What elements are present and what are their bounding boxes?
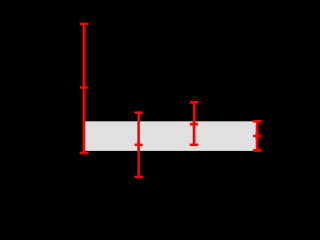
error bar 3	[190, 102, 198, 145]
error bar 4	[253, 121, 261, 150]
error bar 1	[80, 24, 88, 153]
confidence band	[84, 121, 257, 151]
error bar 2	[134, 113, 142, 177]
